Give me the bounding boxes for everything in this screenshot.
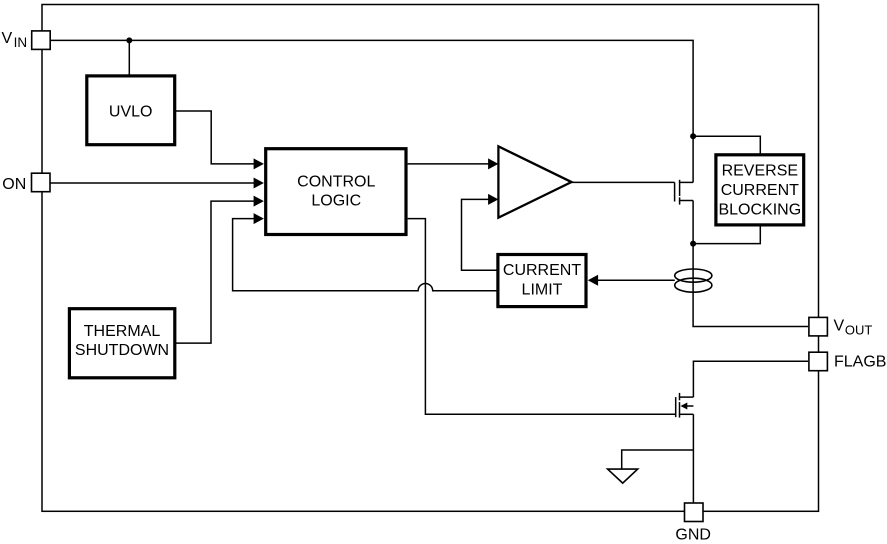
- wire control logic to flag FET gate: [408, 219, 676, 415]
- pin FLAGB: [809, 352, 887, 371]
- op-amp comparator U1: [498, 146, 571, 217]
- svg-text:UVLO: UVLO: [109, 104, 153, 121]
- svg-text:GND: GND: [675, 526, 711, 543]
- wire current limit output to control logic with hop: [233, 213, 497, 291]
- wire UVLO output to control logic: [176, 111, 264, 169]
- wire current limit to comparator lower input: [462, 194, 499, 270]
- ground: [608, 469, 638, 483]
- transistor flag FET Q2: [676, 393, 694, 418]
- pin VOUT: [809, 317, 872, 337]
- block CURRENT LIMIT: [498, 255, 586, 307]
- svg-text:REVERSE: REVERSE: [722, 163, 798, 180]
- svg-text:THERMAL: THERMAL: [84, 323, 161, 340]
- svg-text:BLOCKING: BLOCKING: [718, 202, 801, 219]
- wire flag FET drain to FLAGB: [693, 361, 808, 397]
- svg-text:ON: ON: [2, 176, 26, 193]
- pin GND: [675, 503, 711, 543]
- wire flag FET source to GND pin: [692, 414, 694, 503]
- svg-text:CONTROL: CONTROL: [297, 174, 375, 191]
- svg-text:FLAGB: FLAGB: [834, 354, 886, 371]
- block UVLO: [87, 76, 175, 145]
- block THERMAL SHUTDOWN: [69, 309, 174, 378]
- node pass FET source junction: [690, 241, 696, 247]
- wire ON to control logic: [50, 178, 264, 189]
- current sense element: [675, 269, 712, 292]
- block REVERSE CURRENT BLOCKING: [716, 155, 804, 225]
- pin VIN: [2, 30, 51, 50]
- svg-text:LIMIT: LIMIT: [522, 282, 563, 299]
- svg-text:CURRENT: CURRENT: [503, 262, 581, 279]
- wire current sense to current limit: [588, 275, 675, 286]
- svg-text:SHUTDOWN: SHUTDOWN: [75, 342, 169, 359]
- wire VIN rail to pass FET drain: [50, 40, 693, 182]
- node pass FET drain junction: [690, 133, 696, 139]
- transistor pass FET Q1: [675, 180, 694, 205]
- wire UVLO input from VIN rail: [128, 40, 130, 74]
- wire thermal shutdown output to control logic: [176, 196, 264, 344]
- wire comparator output to pass FET gate: [571, 181, 675, 183]
- svg-text:CURRENT: CURRENT: [721, 182, 799, 199]
- wire to reverse current blocking bottom: [693, 226, 760, 243]
- block CONTROL LOGIC: [266, 149, 406, 235]
- wire to reverse current blocking top: [693, 136, 760, 153]
- svg-text:LOGIC: LOGIC: [311, 192, 361, 209]
- pin ON: [2, 173, 50, 193]
- wire to ground symbol: [622, 450, 694, 469]
- node VIN-UVLO junction: [126, 37, 132, 43]
- wire pass FET source to VOUT: [693, 201, 808, 327]
- wire control logic to comparator input: [408, 158, 499, 169]
